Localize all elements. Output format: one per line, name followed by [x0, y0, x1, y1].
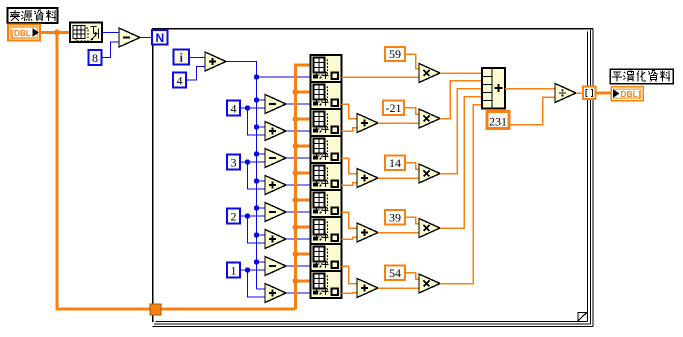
- loop count terminal N: [152, 30, 168, 45]
- divide node (/231): [555, 84, 576, 103]
- wire index4,5 to sum add: [342, 158, 358, 174]
- add node pair 1 (i+4+4): [265, 122, 286, 141]
- constant 39: [385, 210, 405, 225]
- index array node 9: [311, 271, 342, 298]
- wire sum to multiply group 3: [378, 177, 419, 179]
- sum add node group 4: [357, 223, 378, 242]
- wire 231 to divide: [509, 97, 555, 125]
- constant 231: [487, 112, 509, 129]
- wire 4 to add: [186, 67, 205, 81]
- svg-text:8: 8: [92, 51, 98, 65]
- constant 59: [385, 47, 405, 61]
- for loop border: [152, 28, 593, 30]
- multiply node x14: [419, 164, 440, 183]
- wire x39 to compound: [440, 97, 482, 229]
- constant 54: [385, 265, 405, 280]
- wire 14 to multiply: [405, 163, 419, 170]
- wire constant 3 to subtract/add pair: [240, 162, 265, 189]
- wire i+4 taps to pair 3: [254, 205, 259, 210]
- multiply node x54: [419, 274, 440, 293]
- index array node 1: [311, 55, 342, 82]
- add node pair 3 (i+4+2): [265, 230, 286, 249]
- wire sum to multiply group 4: [378, 232, 419, 234]
- wire -21 to multiply: [404, 108, 419, 115]
- wire tunnel to indicator: [596, 92, 612, 95]
- svg-text:39: 39: [389, 210, 401, 224]
- svg-text:14: 14: [389, 156, 401, 170]
- wire sum to multiply group 2: [378, 122, 419, 124]
- wire index8,9 to sum add: [342, 266, 358, 284]
- subtract node pair 3 (i+4-2): [265, 203, 286, 222]
- wire array-size to subtract: [102, 32, 119, 34]
- wire constant 4 to subtract/add pair: [240, 108, 265, 135]
- subtract node pair 4 (i+4-1): [265, 257, 286, 276]
- wire index1 to multiply: [342, 76, 420, 78]
- sum add node group 3: [357, 169, 378, 188]
- svg-text:N: N: [155, 31, 164, 45]
- wire constant 2 to subtract/add pair: [240, 216, 265, 243]
- wire pair 1 outputs to index arrays: [286, 103, 310, 105]
- multiply node x39: [419, 219, 440, 238]
- svg-text:i: i: [180, 51, 183, 65]
- svg-text:2: 2: [231, 209, 237, 223]
- wire i+4 main vertical: [226, 62, 257, 290]
- index array node 6: [311, 190, 342, 217]
- wire index6,7 to sum add: [342, 212, 358, 228]
- wire i+4 taps to pair 1: [254, 97, 259, 102]
- sum add node group 2: [357, 114, 378, 133]
- input tunnel: [150, 304, 161, 315]
- label 平滑化資料 (smoothed data): [610, 69, 673, 84]
- svg-text:4: 4: [231, 101, 237, 115]
- source array control terminal [DBL]: [8, 25, 40, 41]
- label 來源資料 (source data): [8, 8, 58, 23]
- add node (i+4): [205, 52, 226, 71]
- subtract node (array size - 8): [119, 28, 140, 47]
- svg-text:4: 4: [177, 73, 183, 87]
- wire constant 1 to subtract/add pair: [240, 270, 265, 297]
- wire i+4 taps to pair 4: [254, 259, 259, 264]
- index array node 4: [311, 136, 342, 163]
- svg-text:3: 3: [231, 155, 237, 169]
- subtract node pair 2 (i+4-3): [265, 149, 286, 168]
- iteration terminal i: [174, 50, 190, 65]
- compound arithmetic node (+): [482, 68, 505, 109]
- multiply node x59: [419, 64, 440, 83]
- add node pair 4 (i+4+1): [265, 284, 286, 303]
- constant 8: [89, 50, 102, 65]
- wire divide to tunnel: [576, 92, 583, 94]
- svg-text:231: 231: [489, 115, 507, 129]
- wire pair 3 outputs to index arrays: [286, 211, 310, 213]
- wire array bus to index arrays: [296, 65, 311, 309]
- constant 4 (center offset): [173, 73, 186, 88]
- svg-text:[DBL: [DBL: [11, 29, 31, 38]
- index array node 8: [311, 244, 342, 271]
- index array node 2: [311, 82, 342, 109]
- index array node 5: [311, 163, 342, 190]
- constant 2 (offset): [227, 209, 240, 224]
- wire 59 to multiply: [405, 54, 419, 69]
- add node pair 2 (i+4+3): [265, 176, 286, 195]
- index array node 7: [311, 217, 342, 244]
- wire pair 2 outputs to index arrays: [286, 157, 310, 159]
- wire source array to array-size and down to loop tunnel: [40, 33, 150, 310]
- svg-text:1: 1: [231, 263, 237, 277]
- wire sum to multiply group 5: [378, 287, 419, 289]
- constant 4 (offset): [227, 101, 240, 116]
- wire 54 to multiply: [405, 273, 419, 280]
- wire x-21 to compound: [440, 81, 482, 119]
- auto-indexing output tunnel: [583, 87, 596, 100]
- wire i+4 to index-array-1 with junction: [254, 74, 259, 79]
- index array node 3: [311, 109, 342, 136]
- wire i to add: [189, 57, 205, 59]
- svg-text:-21: -21: [386, 101, 402, 115]
- array size node: [70, 23, 102, 43]
- constant -21: [383, 100, 404, 115]
- svg-text:59: 59: [389, 47, 401, 61]
- wire 39 to multiply: [405, 217, 419, 224]
- constant 14: [385, 155, 405, 170]
- wire x54 to compound: [440, 105, 482, 284]
- wire x14 to compound: [440, 89, 482, 174]
- wire 8 to subtract: [102, 42, 120, 58]
- constant 1 (offset): [227, 263, 240, 278]
- output array indicator [DBL]: [611, 87, 643, 101]
- wire compound to divide: [505, 88, 555, 90]
- wire i+4 taps to pair 2: [254, 151, 259, 156]
- wire subtract to N: [140, 37, 152, 39]
- svg-text:DBL]: DBL]: [620, 89, 640, 99]
- sum add node group 5: [357, 279, 378, 298]
- subtract node pair 1 (i+4-4): [265, 95, 286, 114]
- multiply node x-21: [419, 109, 440, 128]
- svg-text:54: 54: [389, 266, 401, 280]
- constant 3 (offset): [227, 155, 240, 170]
- wire x59 to compound: [440, 72, 482, 74]
- wire index2,3 to sum add: [342, 104, 358, 119]
- wire pair 4 outputs to index arrays: [286, 265, 310, 267]
